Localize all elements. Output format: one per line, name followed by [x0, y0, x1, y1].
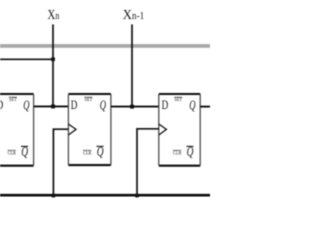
svg-text:Xn: Xn: [47, 8, 59, 23]
wire: U2 clock riser: [53, 129, 68, 195]
flip-flop U3 (right): [159, 94, 200, 166]
wire: bottom clock bus: [0, 194, 210, 197]
svg-text:SET: SET: [85, 98, 93, 103]
svg-text:CLR: CLR: [83, 152, 92, 157]
junction: U3 clock on bus: [135, 194, 139, 198]
wire: Xn vertical drop: [52, 24, 54, 106]
wire: Xn-1 vertical drop: [131, 24, 133, 106]
flip-flop U2 (middle): [68, 94, 111, 165]
wire: Xn branch to left edge: [0, 58, 54, 60]
wire: U1 Q to U2 D: [34, 105, 69, 107]
svg-text:Q: Q: [189, 97, 195, 112]
svg-text:SET: SET: [174, 98, 182, 103]
U2 clock triangle: [68, 124, 76, 135]
svg-text:CLR: CLR: [8, 152, 17, 157]
svg-text:D: D: [71, 97, 78, 112]
wire: U3 Q to right edge: [200, 106, 210, 108]
U3 clock triangle: [159, 124, 167, 135]
svg-text:SET: SET: [9, 98, 17, 103]
svg-text:CLR: CLR: [173, 152, 182, 157]
gray horizontal rule: [0, 44, 210, 48]
svg-text:D: D: [162, 97, 169, 112]
svg-text:D: D: [0, 97, 3, 112]
svg-text:Q: Q: [100, 97, 106, 112]
flip-flop U1 (left, cut at image edge): [0, 94, 34, 166]
junction: Xn-1 tap on Q-D wire: [130, 105, 134, 109]
svg-text:Q: Q: [23, 97, 29, 112]
svg-text:Xn-1: Xn-1: [123, 8, 144, 23]
junction: Xn branch node: [51, 57, 55, 61]
wire: U3 clock riser: [137, 129, 159, 196]
wire: U2 Q to U3 D: [111, 106, 159, 108]
U3 box outline: [159, 93, 200, 95]
U2 box outline: [68, 93, 111, 95]
junction: U2 clock on bus: [52, 194, 56, 198]
junction: Xn tap on Q-D wire: [51, 105, 55, 109]
U1 box outline: [0, 93, 34, 95]
